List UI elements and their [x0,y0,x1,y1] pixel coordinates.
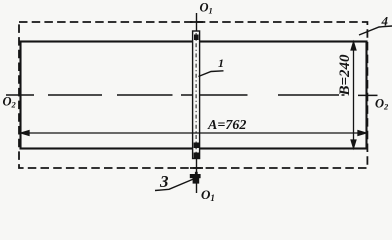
inner solid sheet rectangle [21,42,367,149]
dimension A line with arrows [21,131,366,136]
svg-text:A=762: A=762 [207,118,246,133]
band centre line [195,33,197,157]
clamp 3 at bottom of band [190,172,201,184]
dash tick at top border crossing [190,21,203,23]
band lower dark mark below bottom edge [194,153,200,159]
band top fastening blob [194,35,199,41]
svg-text:4: 4 [381,14,389,29]
dimension B line with arrows [351,42,356,148]
vertical centre line above band [196,13,198,32]
horizontal centre line O2-O2 (explicit dashes) [6,94,378,96]
svg-text:1: 1 [218,56,224,70]
outer dashed sheet outline 4 [19,22,367,168]
leader for label 3 [155,179,194,191]
band lower dark mark above bottom edge [194,143,200,149]
leader for label 1 [198,71,223,77]
dash tick at bottom border crossing [190,167,203,169]
svg-text:B=240: B=240 [337,54,353,97]
band 1 (vertical blade) [193,31,200,159]
svg-text:3: 3 [159,172,169,191]
vertical centre line below band [196,158,198,193]
leader for label 4 [359,26,392,35]
